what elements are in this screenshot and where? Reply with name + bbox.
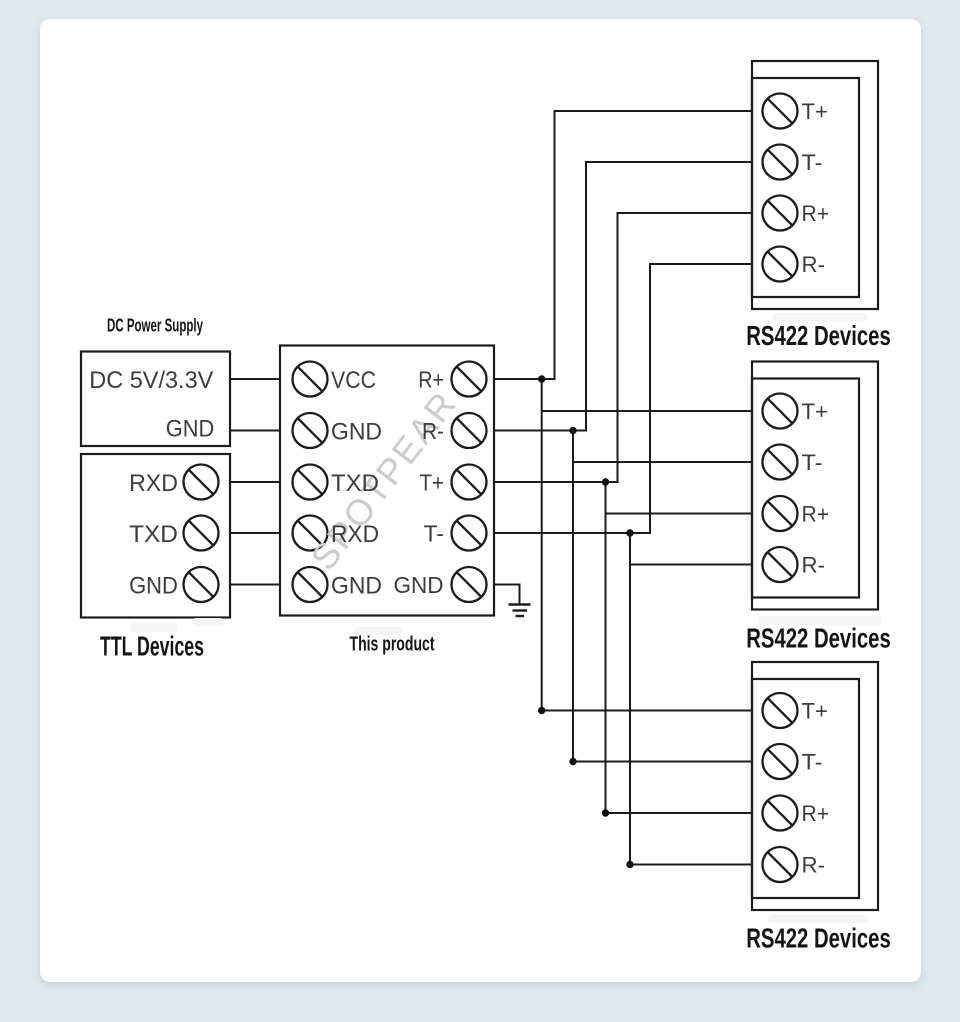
box: RS422 device 2 inner: [752, 379, 859, 598]
terminal RS422-2 T-: [763, 445, 798, 480]
wire: T+ node down to RS422-3 R+: [606, 482, 753, 813]
terminal RS422-3 T-: [763, 744, 798, 779]
terminal product T+: [452, 465, 487, 500]
terminal product GND-L1: [293, 413, 328, 448]
svg-text:T-: T-: [424, 521, 445, 547]
wires left: supply + TTL to product: [230, 379, 280, 585]
svg-text:R+: R+: [802, 502, 830, 527]
svg-text:R-: R-: [422, 418, 444, 444]
svg-text:TXD: TXD: [129, 521, 178, 548]
svg-text:R+: R+: [802, 801, 830, 826]
wire VCC: [230, 378, 280, 380]
wire: R- branch to RS422-2 T-: [573, 461, 752, 463]
box: RS422 device 3 inner: [752, 679, 859, 898]
junction T- bottom: [626, 861, 633, 868]
terminal product TXD: [293, 465, 328, 500]
svg-text:VCC: VCC: [331, 367, 376, 394]
svg-text:T-: T-: [802, 750, 823, 775]
terminal product GND-L2: [293, 567, 328, 602]
wire: product R- to RS422-1 T-: [494, 162, 752, 431]
screw terminals: [184, 94, 798, 883]
box: RS422 device 2 outer: [752, 362, 878, 610]
wire: product T- to RS422-1 R-: [494, 264, 752, 533]
box: DC power supply: [81, 352, 230, 447]
wire: T- node down to RS422-3 R-: [630, 533, 752, 865]
faint watermark fragments: [130, 313, 882, 923]
terminal RS422-1 T-: [763, 145, 798, 180]
svg-text:DC Power Supply: DC Power Supply: [107, 316, 203, 336]
junction T+ top: [602, 478, 609, 485]
terminal TTL RXD: [184, 465, 219, 500]
svg-text:RXD: RXD: [129, 470, 178, 497]
svg-text:GND: GND: [129, 573, 178, 600]
box: RS422 device 1 inner: [752, 78, 859, 297]
svg-text:TXD: TXD: [331, 470, 379, 497]
svg-text:RS422 Devices: RS422 Devices: [746, 320, 891, 351]
svg-text:GND: GND: [166, 416, 215, 443]
terminal RS422-3 T+: [763, 693, 798, 728]
terminal RS422-2 R-: [763, 547, 798, 582]
terminal product RXD: [293, 516, 328, 551]
svg-text:GND: GND: [394, 572, 444, 598]
svg-text:T-: T-: [802, 150, 823, 175]
junction R+ bottom: [538, 707, 545, 714]
svg-text:R+: R+: [802, 201, 830, 226]
junction dots: [538, 375, 634, 868]
svg-text:TTL Devices: TTL Devices: [100, 631, 204, 662]
junction T+ bottom: [602, 809, 609, 816]
box: TTL devices: [81, 454, 230, 618]
svg-text:T+: T+: [802, 399, 829, 424]
svg-text:This product: This product: [350, 633, 435, 656]
box: this product: [280, 346, 494, 616]
ground: [509, 605, 531, 617]
junction R+ top: [538, 375, 545, 382]
terminal TTL TXD: [184, 516, 219, 551]
wire GND1: [230, 430, 280, 432]
svg-text:R+: R+: [418, 367, 444, 393]
wire: T+ branch to RS422-2 R+: [606, 513, 753, 515]
terminal RS422-3 R-: [763, 847, 798, 882]
box: RS422 device 1 outer: [752, 61, 878, 309]
junction R- top: [569, 427, 576, 434]
wire: product GND to ground: [494, 585, 520, 605]
svg-text:T+: T+: [802, 99, 829, 124]
svg-text:T+: T+: [802, 699, 829, 724]
terminal product GND-R: [452, 567, 487, 602]
terminal product R+: [452, 362, 487, 397]
wire: R- node down to RS422-3 T-: [573, 431, 752, 762]
terminal product T-: [452, 516, 487, 551]
wire GND2: [230, 584, 280, 586]
svg-text:RS422 Devices: RS422 Devices: [746, 923, 891, 954]
terminal RS422-1 T+: [763, 94, 798, 129]
terminal RS422-1 R-: [763, 247, 798, 282]
svg-text:T-: T-: [802, 450, 823, 475]
svg-text:R-: R-: [802, 252, 826, 277]
box: RS422 device 3 outer: [752, 662, 878, 910]
svg-text:DC 5V/3.3V: DC 5V/3.3V: [89, 367, 214, 394]
terminal TTL GND: [184, 567, 219, 602]
wire: T- branch to RS422-2 R-: [630, 564, 752, 566]
svg-text:GND: GND: [331, 419, 382, 446]
wire: R+ node down to RS422-3 T+: [542, 379, 752, 711]
terminal value labels: [89, 99, 829, 878]
wire TXD-RXD: [230, 532, 280, 534]
wire: product R+ to RS422-1 T+: [494, 111, 752, 379]
wire: product T+ to RS422-1 R+: [494, 213, 752, 482]
svg-text:R-: R-: [802, 853, 826, 878]
wires right: product to RS422 devices: [494, 111, 752, 865]
terminal RS422-2 T+: [763, 394, 798, 429]
terminal RS422-1 R+: [763, 196, 798, 231]
terminal product R-: [452, 413, 487, 448]
junction R- bottom: [569, 758, 576, 765]
terminal RS422-2 R+: [763, 496, 798, 531]
caption labels (bold condensed): [100, 316, 891, 954]
junction T- top: [626, 529, 633, 536]
svg-text:RS422 Devices: RS422 Devices: [746, 623, 891, 654]
terminal product VCC: [293, 362, 328, 397]
svg-text:RXD: RXD: [331, 521, 379, 548]
svg-text:GND: GND: [331, 573, 382, 600]
svg-text:T+: T+: [420, 470, 445, 496]
svg-text:R-: R-: [802, 553, 826, 578]
terminal RS422-3 R+: [763, 796, 798, 831]
wire: R+ branch to RS422-2 T+: [542, 410, 752, 412]
wire RXD-TXD: [230, 481, 280, 483]
